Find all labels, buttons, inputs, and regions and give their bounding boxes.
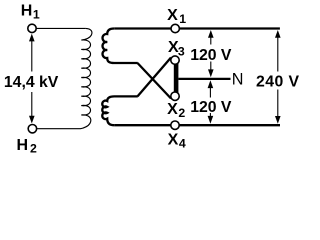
dimension arrowhead down at bottom wire right [275,116,281,124]
crossed wire upper coil to X2 [138,63,172,99]
primary winding P1 [81,28,92,128]
dimension arrow 120 V lower, top shaft [209,83,211,98]
dimension arrow 120 V upper, bottom shaft [210,62,212,75]
dimension arrowhead down at bottom wire [208,116,214,124]
terminal X1 [171,24,179,32]
svg-text:H: H [17,137,29,154]
dimension arrow 240 V, bottom shaft [277,90,279,122]
dimension arrow 240 V, top shaft [277,33,279,72]
secondary winding lower [102,96,138,125]
secondary bottom wire X4 [114,124,280,126]
svg-text:X: X [167,101,178,118]
secondary winding upper [103,29,138,64]
dimension arrow 120 V lower, bottom shaft [209,113,211,121]
svg-text:14,4 kV: 14,4 kV [4,74,59,91]
neutral wire N [178,78,230,80]
svg-text:1: 1 [33,8,40,22]
svg-text:4: 4 [179,137,186,151]
svg-text:240 V: 240 V [256,74,300,91]
wire primary coil to H2 [37,128,81,130]
dimension arrow 120 V upper, top shaft [210,33,212,45]
svg-text:X: X [167,7,178,24]
dimension arrowhead down at H2 [29,116,35,124]
svg-text:3: 3 [178,44,185,58]
dimension arrowhead up at H1 [29,34,35,42]
dimension arrowhead up at top wire right [275,30,281,38]
dimension arrow 14,4 kV lower shaft [31,92,33,121]
dimension arrowhead up at N wire [208,80,214,88]
terminal X4 [171,121,179,129]
wire H1 to primary coil [36,27,85,29]
svg-text:120 V: 120 V [190,99,232,116]
dimension arrowhead up at top wire [208,30,214,38]
dimension arrowhead down at N wire [208,69,214,77]
terminal H1 [28,24,36,32]
svg-text:1: 1 [179,12,186,26]
svg-text:2: 2 [178,106,185,120]
svg-text:2: 2 [30,142,37,155]
crossed wire lower coil to X3 [138,58,172,97]
svg-text:X: X [168,132,179,149]
svg-text:120 V: 120 V [190,47,232,64]
svg-text:N: N [232,70,244,88]
terminal X3 [171,56,179,64]
dimension arrow 14,4 kV upper shaft [31,37,33,72]
secondary top wire X1 [114,27,280,29]
terminal X2 [171,92,179,100]
svg-text:H: H [21,3,33,20]
terminal H2 [28,125,36,133]
jumper bar X3 to X2 [174,63,179,95]
